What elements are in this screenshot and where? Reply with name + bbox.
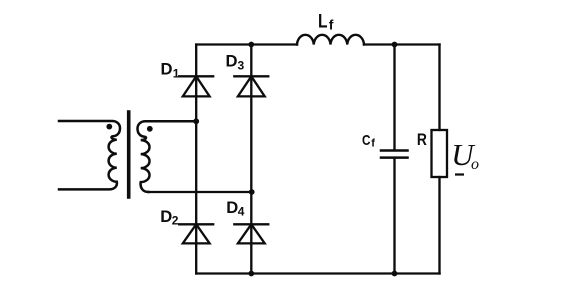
wire secondary bottom lead xyxy=(149,191,252,193)
node dot secondary bottom junction xyxy=(249,189,255,195)
svg-text:1: 1 xyxy=(173,67,180,81)
label Cf xyxy=(362,132,375,150)
diode D2 xyxy=(179,224,213,243)
transformer T primary winding xyxy=(59,121,120,189)
capacitor Cf xyxy=(381,151,408,158)
node dot top bridge junction xyxy=(248,42,254,48)
svg-text:D: D xyxy=(160,207,172,226)
transformer core xyxy=(127,112,131,197)
wire right branch lower xyxy=(438,177,440,274)
label D1 xyxy=(161,60,180,81)
svg-text:R: R xyxy=(417,130,427,149)
diode D1 xyxy=(179,76,213,96)
label D2 xyxy=(160,207,179,228)
wire capacitor branch lower xyxy=(393,159,395,274)
wire right bridge branch xyxy=(250,45,252,274)
diode D4 xyxy=(234,224,268,243)
svg-text:f: f xyxy=(329,17,334,33)
inductor Lf xyxy=(297,35,364,45)
transformer T secondary winding xyxy=(138,121,197,192)
label Uo xyxy=(451,137,479,173)
svg-text:f: f xyxy=(371,138,375,150)
label D4 xyxy=(226,198,244,219)
label D3 xyxy=(226,52,245,73)
wire top right segment xyxy=(364,43,440,45)
label minus sign of Uo xyxy=(455,173,464,175)
svg-text:D: D xyxy=(161,60,173,79)
wire capacitor branch upper xyxy=(393,45,395,150)
svg-text:C: C xyxy=(362,132,371,149)
node dot secondary top junction xyxy=(193,118,199,124)
svg-text:D: D xyxy=(226,52,238,71)
node dot capacitor top junction xyxy=(392,42,398,48)
transformer primary polarity dot xyxy=(106,124,112,130)
svg-text:D: D xyxy=(226,198,238,217)
wire top left segment xyxy=(196,43,297,45)
node dot bottom bridge junction xyxy=(248,271,254,277)
wire right branch upper xyxy=(438,45,440,131)
svg-text:4: 4 xyxy=(238,205,245,219)
diode D3 xyxy=(234,76,268,96)
transformer secondary polarity dot xyxy=(147,126,153,132)
node dot capacitor bottom junction xyxy=(392,271,398,277)
svg-text:L: L xyxy=(318,10,328,32)
resistor R xyxy=(432,130,448,177)
label Lf xyxy=(318,10,334,32)
svg-text:2: 2 xyxy=(172,214,179,228)
svg-text:3: 3 xyxy=(238,59,245,73)
wire bottom xyxy=(196,272,439,274)
svg-text:o: o xyxy=(471,156,479,173)
wire left bridge branch xyxy=(195,45,197,274)
